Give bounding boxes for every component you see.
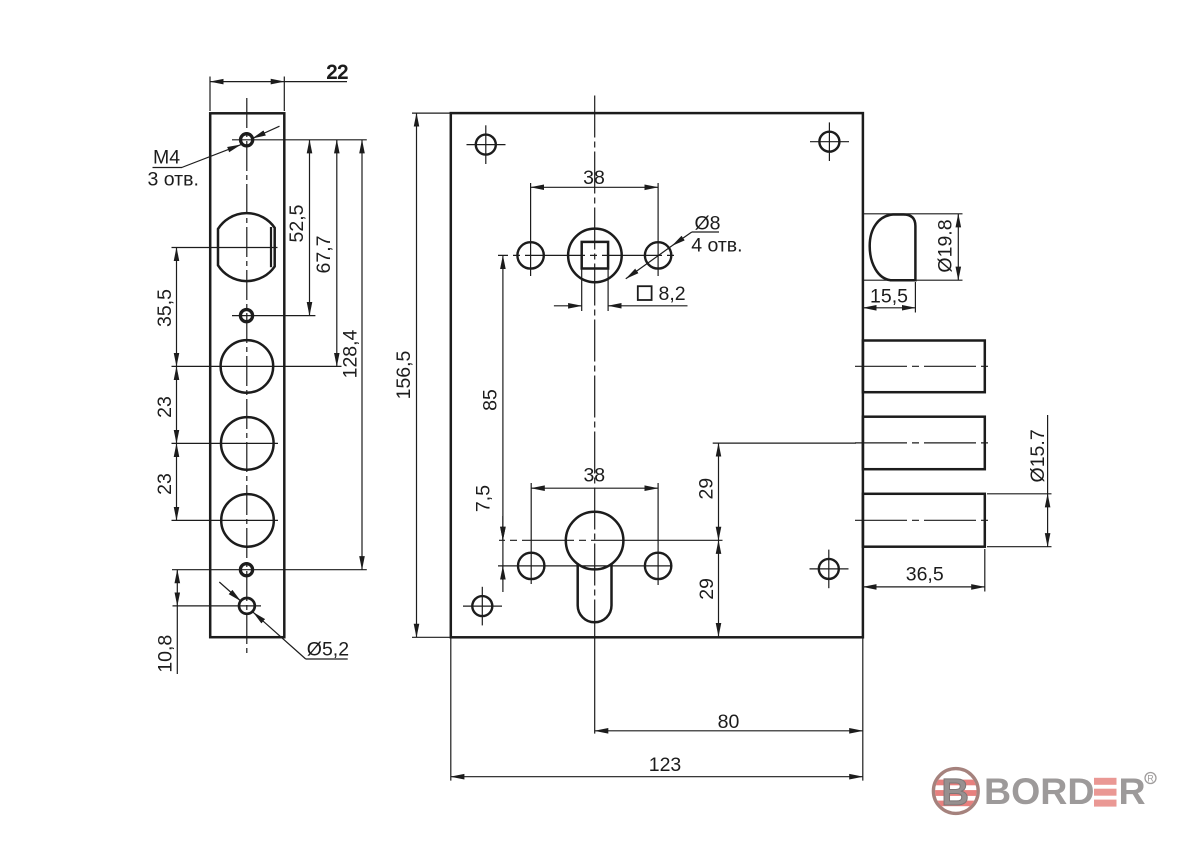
corner hole bottom-left crosshair h	[463, 605, 502, 607]
svg-text:52,5: 52,5	[286, 204, 308, 242]
hole 8 lower-right	[645, 553, 671, 579]
svg-text:Ø5,2: Ø5,2	[307, 639, 349, 661]
svg-text:36,5: 36,5	[906, 564, 944, 586]
leader 5.2 upper segment	[219, 582, 240, 601]
dim 8.2 arrow left	[554, 305, 582, 307]
dim 38top line	[531, 186, 659, 188]
svg-text:M4: M4	[153, 147, 180, 169]
leader 8 segment b	[626, 246, 672, 279]
dim 29a line	[718, 443, 720, 540]
dim 23a line	[176, 366, 178, 443]
hole big 1	[221, 340, 274, 393]
cylinder centerline extension	[633, 539, 723, 541]
corner hole bottom-left	[472, 596, 492, 616]
svg-text:80: 80	[718, 711, 740, 733]
ext line top hole	[232, 139, 367, 141]
dim 36.5 ext right	[984, 549, 986, 592]
hole 8 upper-left	[517, 242, 543, 268]
square symbol 8.2	[638, 286, 652, 300]
dim 22 tail	[284, 81, 347, 83]
corner hole top-left crosshair v	[485, 125, 487, 164]
svg-text:22: 22	[327, 62, 349, 84]
hole M4 top	[241, 134, 253, 146]
svg-text:Ø8: Ø8	[695, 212, 721, 234]
svg-text:38: 38	[583, 465, 605, 487]
dim 15.7 line	[1047, 494, 1049, 547]
logo emblem stripes	[933, 780, 979, 807]
corner hole top-left crosshair h	[467, 144, 506, 146]
dim 10.8 line	[176, 570, 178, 606]
dim 15.5 line	[863, 307, 916, 309]
bolt 1 centerline	[855, 365, 993, 367]
dim 156.5 line	[416, 113, 418, 637]
svg-text:R: R	[1119, 770, 1146, 812]
dim 38low ext right	[657, 483, 659, 585]
dim 156.5 ext top	[412, 112, 450, 114]
hole 8 lower-left	[518, 553, 544, 579]
svg-text:4 отв.: 4 отв.	[691, 235, 742, 257]
svg-text:38: 38	[583, 167, 605, 189]
dim 7.5 arrow upper	[502, 526, 504, 540]
corner hole top-left	[476, 135, 496, 155]
svg-text:156,5: 156,5	[393, 350, 415, 399]
spindle square hole	[582, 242, 608, 269]
dim 38top ext left	[530, 183, 532, 276]
leader 5.2 underline	[306, 658, 348, 660]
ext line hole M4 bottom	[172, 569, 367, 571]
dim 38low line	[531, 487, 658, 489]
dim 10.8 tail	[176, 606, 178, 674]
latch bolt outline	[870, 215, 916, 281]
RIGHTSIDE-GROUP	[855, 214, 1052, 592]
cylinder body	[578, 563, 612, 622]
dim 52.5 line	[309, 140, 311, 316]
dim 128.4 line	[361, 140, 363, 570]
dim 38low ext left	[530, 483, 532, 584]
spindle circle	[568, 229, 622, 283]
corner hole top-right	[819, 132, 839, 152]
svg-text:R: R	[1147, 774, 1154, 784]
dim 15.7 ext bottom	[987, 546, 1052, 548]
logo registered mark	[1145, 773, 1156, 784]
dim 38top ext right	[657, 183, 659, 276]
leader 8 underline	[692, 231, 719, 233]
ext line circle1	[172, 365, 342, 367]
hole big 2	[221, 417, 274, 470]
leader M4 upper segment	[252, 126, 279, 138]
corner hole bottom-left crosshair v	[481, 587, 483, 626]
bolt 3 centerline	[855, 519, 993, 521]
ext line circle3	[172, 519, 279, 521]
bolt 2	[863, 417, 985, 470]
bolt 1	[863, 341, 985, 393]
dim 7.5 arrow lower	[502, 566, 504, 580]
dim 123 line	[451, 776, 863, 778]
svg-text:8,2: 8,2	[659, 283, 686, 305]
svg-text:67,7: 67,7	[313, 236, 335, 274]
BODY-GROUP	[393, 96, 863, 781]
leader M4 lower segment	[182, 145, 241, 168]
faceplate outline	[210, 113, 284, 637]
body outline	[451, 113, 863, 637]
dim 85 line	[502, 255, 504, 540]
svg-text:29: 29	[696, 578, 718, 600]
dim 19.8 line	[957, 214, 959, 280]
ext 123 right	[862, 638, 864, 781]
LOGO-GROUP	[933, 769, 1156, 815]
svg-text:7,5: 7,5	[473, 485, 495, 512]
dim 80 line	[595, 730, 863, 732]
leader M4 underline	[153, 167, 183, 169]
latch ext top	[864, 213, 963, 215]
faceplate centerline	[246, 98, 248, 655]
dim 7.5 stem	[502, 516, 504, 592]
logo letter E bars	[1094, 778, 1117, 807]
spindle horizontal centerline	[498, 254, 679, 256]
dim 36.5 line	[863, 586, 985, 588]
svg-text:35,5: 35,5	[154, 289, 176, 327]
svg-text:Ø19.8: Ø19.8	[935, 219, 957, 272]
ext line big hole center	[172, 247, 278, 249]
dim 156.5 ext bottom	[412, 636, 450, 638]
corner hole bottom-right crosshair h	[810, 568, 849, 570]
ext 80 centerline	[594, 637, 596, 733]
hole 5.2	[239, 598, 255, 614]
svg-text:23: 23	[154, 396, 176, 418]
corner hole top-right crosshair v	[828, 122, 830, 161]
dim 8.2 ext left	[581, 269, 583, 312]
FACEPLATE-GROUP	[148, 62, 367, 675]
cylinder centerline horizontal	[499, 539, 633, 541]
ext line lower holes	[498, 565, 672, 567]
logo emblem ring	[933, 769, 978, 814]
svg-text:BORD: BORD	[984, 770, 1094, 812]
dim 35.5 line	[176, 248, 178, 367]
ext line mid hole	[232, 315, 315, 317]
leader 5.2 lower segment	[253, 612, 306, 659]
hole 8 upper-right	[645, 242, 671, 268]
dim 8.2 ext right	[607, 269, 609, 312]
ext line circle2	[172, 442, 279, 444]
dim 23b line	[176, 443, 178, 520]
svg-text:85: 85	[480, 389, 502, 411]
svg-text:15,5: 15,5	[870, 286, 908, 308]
svg-text:Ø15.7: Ø15.7	[1027, 429, 1049, 482]
bolt 2 centerline	[855, 442, 993, 444]
hole M4 middle	[240, 310, 252, 322]
dim 22 extension left	[209, 77, 211, 112]
cylinder circle	[566, 512, 624, 570]
svg-text:23: 23	[154, 473, 176, 495]
ext line 29 top	[713, 442, 856, 444]
hole big 3	[221, 494, 274, 547]
dim 67.7 line	[336, 140, 338, 367]
latch ext bottom	[864, 279, 963, 281]
corner hole bottom-right crosshair v	[828, 550, 830, 589]
spindle hole inner flat line	[270, 227, 272, 267]
bolt 3	[863, 494, 985, 547]
corner hole top-right crosshair h	[810, 141, 849, 143]
svg-text:B: B	[941, 772, 968, 814]
dim 15.7 ext top	[987, 493, 1052, 495]
dim 15.7 stem	[1047, 415, 1049, 494]
svg-text:128,4: 128,4	[340, 329, 362, 378]
ext 123 left	[450, 638, 452, 781]
hole M4 bottom	[240, 564, 252, 576]
svg-text:10,8: 10,8	[155, 635, 177, 673]
dim 15.5 ext right	[914, 282, 916, 313]
spindle hole big (double-D)	[218, 213, 275, 281]
dim 29b line	[718, 540, 720, 636]
dim 22 line	[210, 81, 284, 83]
svg-text:3 отв.: 3 отв.	[148, 169, 199, 191]
corner hole bottom-right	[819, 559, 839, 579]
dim 22 extension right	[283, 77, 285, 112]
leader 8 segment a	[672, 232, 692, 246]
svg-text:29: 29	[696, 478, 718, 500]
dim 8.2 arrow right	[608, 305, 687, 307]
body vertical centerline	[594, 96, 596, 638]
svg-text:123: 123	[649, 754, 682, 776]
ext line hole 5.2	[173, 605, 262, 607]
